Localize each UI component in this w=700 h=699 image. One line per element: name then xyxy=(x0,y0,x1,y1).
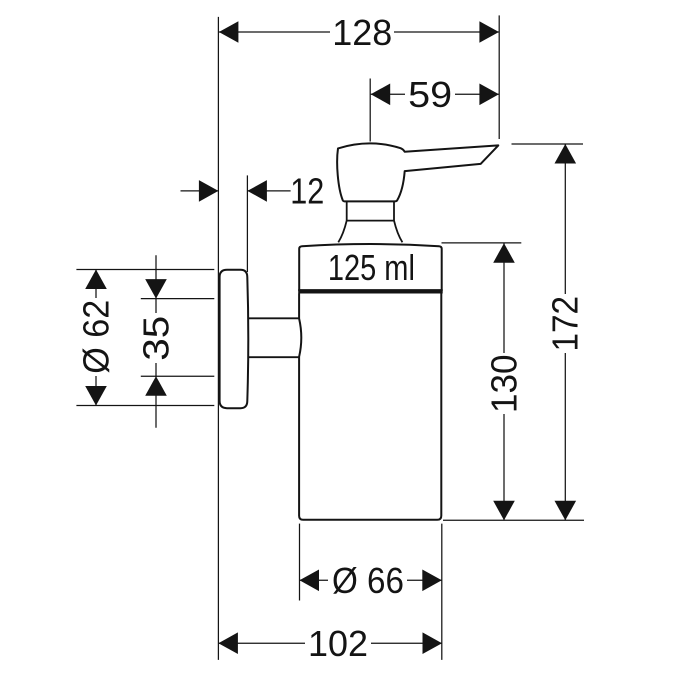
svg-text:172: 172 xyxy=(545,296,586,352)
svg-text:59: 59 xyxy=(408,74,452,115)
svg-text:125 ml: 125 ml xyxy=(328,247,415,288)
svg-text:Ø 62: Ø 62 xyxy=(75,300,116,374)
svg-text:130: 130 xyxy=(483,354,524,413)
svg-text:35: 35 xyxy=(135,316,176,361)
svg-text:102: 102 xyxy=(308,623,368,664)
svg-text:128: 128 xyxy=(332,12,392,53)
svg-text:Ø 66: Ø 66 xyxy=(332,560,404,601)
svg-text:12: 12 xyxy=(290,171,324,212)
